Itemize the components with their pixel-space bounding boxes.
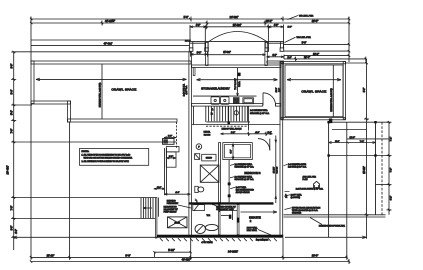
- chute mid box: [166, 147, 179, 152]
- svg-text:2'-0": 2'-0": [157, 187, 162, 189]
- right grade line R3: [284, 43, 350, 45]
- svg-text:STORAGE/LAUNDRY: STORAGE/LAUNDRY: [201, 87, 230, 91]
- svg-text:4'-0": 4'-0": [255, 132, 260, 134]
- post bedroom lower: [228, 194, 231, 197]
- svg-text:ROOM: ROOM: [204, 134, 211, 136]
- laundry south wall east part: [275, 104, 281, 107]
- bottom dim line 1: [30, 255, 348, 260]
- dim 4'-0 between P3 P4: [267, 56, 285, 58]
- west wall of middle section: [189, 52, 192, 237]
- right top dim 21'-4: [284, 58, 367, 60]
- dim 5'-6 between P1 P2: [191, 53, 208, 55]
- bay east wall: [265, 43, 267, 66]
- laundry door leaf: [262, 93, 264, 106]
- middle top wall / bay floor: [192, 65, 282, 68]
- svg-text:UPPER FLOOR LEDGE ATTACH: UPPER FLOOR LEDGE ATTACH: [292, 206, 321, 209]
- garage line y184.6: [376, 184, 390, 186]
- svg-text:PUMP/SUMP: PUMP/SUMP: [167, 203, 179, 205]
- laundry door arc: [263, 93, 276, 106]
- svg-text:18'-0": 18'-0": [312, 253, 319, 257]
- svg-text:SMCD: SMCD: [206, 158, 213, 160]
- svg-text:3'-0": 3'-0": [231, 149, 233, 153]
- svg-text:1. ALL WINDOW IN DOOR HEADERS: 1. ALL WINDOW IN DOOR HEADERS TO BE 2 PL…: [82, 154, 131, 157]
- notes box: [80, 149, 149, 166]
- svg-text:7'-0": 7'-0": [11, 205, 14, 210]
- stair center post: [228, 121, 230, 124]
- chute dim 2'-8 upper: [164, 137, 176, 139]
- dim 2'-0: [154, 188, 165, 190]
- right crawl dim arrow: [287, 79, 341, 81]
- right crawl east wall: [343, 62, 345, 120]
- svg-text:8'-1": 8'-1": [231, 132, 236, 134]
- laundry pilaster: [193, 68, 195, 76]
- leader W8 LNTL lower: [285, 37, 296, 42]
- left vertical dimension line: [11, 51, 16, 250]
- chute lower box: [166, 152, 176, 167]
- bay dim right segment: [268, 26, 283, 28]
- svg-text:47'-8¾": 47'-8¾": [104, 42, 113, 46]
- ensuite dim arrow: [241, 211, 278, 213]
- svg-text:SUMP: SUMP: [174, 223, 180, 225]
- svg-text:LINE OF WALL ABOVE: LINE OF WALL ABOVE: [222, 127, 243, 130]
- crawl width dim arrow: [36, 78, 187, 80]
- extension line y197.5: [14, 197, 156, 199]
- post P4: [280, 42, 284, 52]
- grade line y237 left: [13, 236, 157, 238]
- linen partition line: [232, 211, 234, 221]
- laundry south wall west part: [192, 104, 263, 107]
- svg-text:3'-0": 3'-0": [302, 41, 307, 44]
- garage mid line y155.5: [329, 155, 389, 157]
- svg-text:11'-10": 11'-10": [47, 253, 55, 257]
- post garage se: [374, 154, 376, 156]
- svg-text:STAGGER @ 16" O.C.: STAGGER @ 16" O.C.: [235, 166, 255, 169]
- garage dim line y129.5: [332, 129, 366, 131]
- svg-text:23'-2": 23'-2": [266, 19, 273, 23]
- ensuite west partition: [237, 205, 239, 235]
- svg-text:9'-6": 9'-6": [125, 253, 130, 257]
- bay dim left segment: [190, 26, 206, 28]
- post bedroom upper: [228, 182, 231, 185]
- landing partition: [193, 106, 195, 124]
- svg-text:5'-6": 5'-6": [197, 52, 202, 54]
- svg-text:(2x8 DF#2): (2x8 DF#2): [291, 197, 301, 199]
- svg-text:6'-2": 6'-2": [391, 196, 393, 201]
- left crawl top wall: [31, 61, 191, 64]
- garage dim x389: [387, 121, 392, 215]
- bay center post: [238, 73, 241, 77]
- deck edge line lower left: [190, 42, 207, 44]
- bath vanity: [205, 224, 218, 230]
- svg-text:2x6 BEARING WALL: 2x6 BEARING WALL: [235, 175, 253, 178]
- right vertical dim x366.5: [366, 59, 368, 239]
- svg-text:2'-6": 2'-6": [279, 88, 281, 92]
- svg-text:7'-6": 7'-6": [391, 168, 393, 173]
- svg-text:CLG HT: CLG HT: [277, 166, 279, 174]
- bearing wall thick: [189, 202, 274, 204]
- svg-text:U.N.O.: U.N.O.: [239, 81, 241, 87]
- svg-text:WITH GLB ON BOTTOM UNLESS NOTE: WITH GLB ON BOTTOM UNLESS NOTED OTHERWIS…: [84, 158, 133, 160]
- left crawl step wall horizontal: [31, 101, 71, 104]
- post garage ne: [374, 121, 376, 123]
- bath east partition: [219, 205, 221, 235]
- grade line y237 right: [285, 236, 366, 238]
- svg-text:ENSUITE: ENSUITE: [249, 216, 261, 220]
- svg-text:2'-8": 2'-8": [169, 156, 174, 158]
- house icon: [314, 181, 320, 187]
- chute dim 2'-8 mid: [166, 157, 176, 159]
- dimension line D1 overall top: [30, 17, 350, 62]
- svg-text:W8 LNTL PER: W8 LNTL PER: [299, 16, 314, 18]
- svg-text:ABOVE GRADE: ABOVE GRADE: [236, 191, 251, 194]
- crawl wall jog post: [329, 119, 332, 124]
- svg-text:4 PLY RISER: 4 PLY RISER: [201, 242, 213, 244]
- svg-text:7'-2" CLG HT: 7'-2" CLG HT: [235, 78, 237, 90]
- stairwell west wall: [205, 106, 207, 122]
- svg-text:2'-0": 2'-0": [288, 27, 293, 29]
- stairwell east wall: [248, 106, 250, 130]
- svg-text:2'-8": 2'-8": [168, 136, 173, 138]
- svg-text:4'-0": 4'-0": [175, 192, 180, 194]
- bath door: [218, 205, 220, 212]
- c fixtures: [195, 199, 197, 205]
- raised dim jog 5'-10: [155, 251, 191, 253]
- svg-text:CRAWL SPACE: CRAWL SPACE: [301, 90, 326, 94]
- bedroom dim vertical: [275, 136, 277, 204]
- garage west line x328.6: [328, 122, 330, 237]
- left grade line L3: [31, 39, 190, 41]
- svg-text:PUMP BELOW: PUMP BELOW: [164, 212, 177, 214]
- extension x69.6 below wall: [69, 122, 71, 257]
- extension from crawl to dim: [346, 62, 367, 64]
- svg-text:NOTES:: NOTES:: [82, 151, 90, 153]
- leaders bedroom notes: [230, 164, 235, 188]
- dimension line D2 second top: [30, 21, 350, 26]
- svg-text:6'-0": 6'-0": [11, 225, 14, 230]
- laundry sink: [243, 98, 254, 104]
- svg-text:10'-2": 10'-2": [313, 53, 319, 56]
- right crawl bottom wall: [281, 117, 346, 119]
- left grade line L4: [31, 45, 190, 47]
- left crawl west wall: [31, 61, 34, 104]
- extension line y218.5: [14, 218, 156, 220]
- deck edge line upper: [190, 41, 284, 43]
- bath toilet: [195, 224, 205, 233]
- furnace flue circle: [196, 144, 202, 150]
- stair center stringer: [227, 106, 229, 122]
- arch above bay: [208, 32, 269, 43]
- extension x31 below step: [30, 104, 32, 257]
- deck south edge: [284, 214, 386, 216]
- stair landing band: [207, 121, 251, 123]
- svg-text:2x6 BEARING WALL: 2x6 BEARING WALL: [250, 109, 268, 112]
- closet dim: [232, 144, 234, 160]
- small box SD: [195, 154, 200, 160]
- dim 11'-8 inside bay: [208, 54, 266, 56]
- svg-text:DASHED LINE OF DECK ABV.: DASHED LINE OF DECK ABV.: [319, 225, 346, 228]
- deck edge line lower right: [267, 42, 284, 44]
- svg-text:LOC HEADER: LOC HEADER: [256, 239, 269, 242]
- extension x190.7 to dim: [190, 238, 192, 258]
- interior bearing line right crawl: [332, 65, 334, 117]
- closet inner: [225, 144, 251, 157]
- svg-text:24'-0¾": 24'-0¾": [230, 15, 239, 19]
- bay dimension 11'-8: [205, 24, 269, 29]
- exterior stair treads: [141, 198, 153, 219]
- svg-text:8'-4": 8'-4": [11, 89, 14, 94]
- svg-text:STAGGER @ 16" O.C.: STAGGER @ 16" O.C.: [250, 112, 270, 115]
- stair risers: [209, 106, 248, 121]
- right grade line R4: [284, 50, 350, 52]
- stair circle: [234, 111, 238, 115]
- bottom dim line 2 overall: [30, 259, 350, 264]
- svg-text:ACB LNTL PER: ACB LNTL PER: [303, 176, 317, 179]
- dim 4'-0: [164, 193, 190, 195]
- dryer: [221, 97, 229, 104]
- dark appliance mark: [233, 97, 240, 104]
- dashed wall continuation x176.5: [176, 122, 178, 148]
- laundry width dim arrow: [197, 79, 278, 81]
- hall door arc: [269, 139, 271, 151]
- interior bearing line x102: [101, 64, 103, 119]
- svg-text:9'-6": 9'-6": [11, 63, 14, 68]
- svg-text:7'-6": 7'-6": [360, 141, 365, 143]
- ensuite south thick wall: [157, 235, 283, 238]
- linen shelf: [220, 210, 237, 212]
- laundry center dim line: [237, 68, 239, 96]
- svg-text:5'-10": 5'-10": [168, 248, 175, 252]
- mech dim line: [221, 133, 273, 135]
- svg-text:2x8 FLOOR JOISTS @ 16" O.C.: 2x8 FLOOR JOISTS @ 16" O.C.: [296, 188, 324, 190]
- svg-text:MECH.: MECH.: [204, 132, 211, 134]
- right crawl inner liner: [285, 65, 343, 117]
- post garage sw: [327, 154, 329, 156]
- svg-text:10'-1¼": 10'-1¼": [272, 166, 275, 173]
- svg-text:DUST WALL: DUST WALL: [247, 227, 258, 230]
- extension line y142: [14, 141, 177, 143]
- leader W8 LNTL upper: [288, 16, 299, 20]
- svg-text:BEARING WALL 4x10 DF|2: BEARING WALL 4x10 DF|2: [330, 88, 333, 111]
- chute upper dark box: [163, 139, 175, 145]
- areaway wall x164.5: [164, 148, 166, 195]
- left crawl bottom wall: [68, 119, 178, 122]
- svg-text:BEARING WALL 4x10 DF|2: BEARING WALL 4x10 DF|2: [98, 82, 101, 107]
- landing west wall: [155, 198, 157, 239]
- garage top line: [329, 121, 389, 123]
- svg-text:STAGGER: STAGGER: [292, 212, 302, 215]
- post P2: [205, 42, 209, 52]
- post garage nw: [327, 121, 329, 123]
- svg-text:11'-8¾": 11'-8¾": [223, 51, 231, 54]
- svg-text:11'-8¾": 11'-8¾": [233, 23, 242, 27]
- svg-text:4'-0": 4'-0": [274, 25, 279, 27]
- extension x283 to dim: [282, 238, 284, 258]
- svg-text:40'-1¼": 40'-1¼": [182, 258, 191, 262]
- svg-text:5'-6": 5'-6": [335, 141, 340, 143]
- right crawl west wall: [281, 62, 283, 120]
- svg-text:CRAWL SPACE: CRAWL SPACE: [111, 88, 136, 92]
- svg-text:W/ 5/8 LAG BOLTS @ 16 O.C.: W/ 5/8 LAG BOLTS @ 16 O.C.: [292, 209, 318, 212]
- linen marks: [229, 215, 232, 219]
- line of wall above dashed: [206, 125, 249, 127]
- svg-text:41'-10½": 41'-10½": [105, 19, 115, 23]
- right crawl top wall: [281, 62, 346, 64]
- beam line with posts: [228, 160, 230, 203]
- box SMCD: [202, 154, 216, 161]
- deck dashed line x382: [381, 122, 383, 215]
- svg-text:2x6 BEARING WALL: 2x6 BEARING WALL: [235, 163, 253, 166]
- left crawl step wall vertical: [68, 101, 71, 122]
- svg-text:W8 LNTL PER: W8 LNTL PER: [297, 37, 312, 39]
- bay extension lines: [189, 25, 191, 42]
- svg-text:7'-1": 7'-1": [391, 137, 393, 142]
- bay west wall: [206, 43, 208, 66]
- garage dim line y138.9: [347, 138, 389, 140]
- svg-text:24'-10¼": 24'-10¼": [228, 250, 238, 254]
- svg-text:@16" O.C.: @16" O.C.: [186, 85, 188, 95]
- garage line x346.8: [346, 122, 348, 257]
- stair down arrow: [143, 207, 152, 209]
- post P3: [265, 42, 269, 52]
- east wall of middle section: [280, 62, 283, 237]
- right grade line R5: [284, 55, 349, 57]
- wall link to right crawl: [267, 61, 284, 63]
- svg-text:STAGGER @ 16" O.C.: STAGGER @ 16" O.C.: [235, 178, 255, 181]
- ensuite post: [237, 218, 239, 223]
- svg-text:8'-6": 8'-6": [364, 88, 366, 93]
- counter line upper: [193, 95, 257, 97]
- wall hatch marks: [160, 238, 277, 241]
- svg-text:4'-0": 4'-0": [272, 55, 277, 57]
- svg-text:11'-6¼": 11'-6¼": [363, 166, 366, 174]
- closet outer: [223, 143, 253, 160]
- right end extension x349: [348, 17, 350, 63]
- left grade line L5: [14, 51, 190, 53]
- svg-text:BLW. WDW.: BLW. WDW.: [247, 230, 258, 232]
- svg-text:21'-4": 21'-4": [304, 56, 310, 59]
- deck east wall x375.5: [375, 122, 377, 215]
- washer: [211, 97, 219, 104]
- svg-text:18'-4¼": 18'-4¼": [6, 165, 10, 174]
- svg-text:5'-6": 5'-6": [184, 16, 189, 19]
- svg-text:7'-0": 7'-0": [11, 128, 14, 133]
- svg-text:2. ALL INTERIOR POSTS 2 BEAMS: 2. ALL INTERIOR POSTS 2 BEAMS TO BE 4PLY…: [82, 160, 130, 163]
- garage dim line y142.5: [329, 142, 376, 144]
- svg-text:2x8 DF#2 @ 16" O.C.: 2x8 DF#2 @ 16" O.C.: [288, 166, 307, 168]
- svg-text:TLR: TLR: [207, 215, 211, 217]
- sump pit: [168, 217, 188, 228]
- svg-text:5'-0": 5'-0": [11, 110, 14, 115]
- svg-text:1'-6": 1'-6": [287, 57, 292, 59]
- svg-text:BEDROOM 3: BEDROOM 3: [244, 171, 261, 175]
- svg-text:PLAN: PLAN: [303, 178, 309, 181]
- toilet mech: [195, 186, 198, 192]
- furnace unit: [200, 165, 219, 182]
- svg-text:4'-0": 4'-0": [196, 25, 201, 27]
- svg-text:4'-0": 4'-0": [15, 229, 18, 234]
- extension line y105: [14, 104, 32, 106]
- bedroom west wall: [219, 143, 221, 203]
- bath shower: [193, 205, 205, 211]
- svg-text:12'-0": 12'-0": [350, 137, 356, 139]
- svg-text:1'-6": 1'-6": [267, 132, 272, 134]
- post P1: [189, 42, 193, 52]
